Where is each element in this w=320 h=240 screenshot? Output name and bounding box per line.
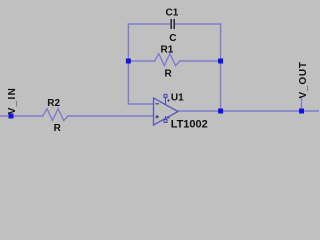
svg-text:V_IN: V_IN	[7, 87, 18, 114]
svg-text:LT1002: LT1002	[171, 118, 208, 130]
svg-text:R1: R1	[161, 45, 174, 56]
svg-text:U1: U1	[171, 93, 184, 104]
svg-text:R: R	[165, 69, 173, 80]
svg-text:V_OUT: V_OUT	[298, 61, 309, 98]
svg-text:R: R	[54, 123, 62, 134]
svg-text:R2: R2	[47, 98, 60, 109]
svg-text:C: C	[169, 33, 176, 44]
svg-text:C1: C1	[166, 8, 179, 19]
